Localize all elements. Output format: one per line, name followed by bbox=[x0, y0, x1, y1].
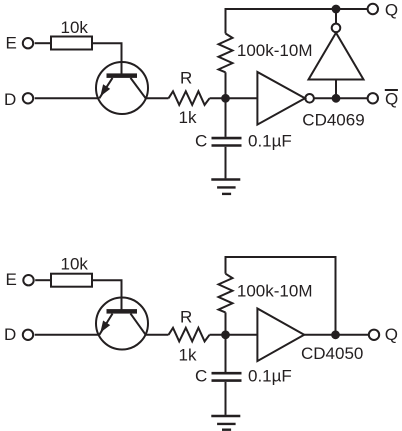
wire D to emitter (bottom) bbox=[35, 334, 99, 336]
wire node A down to capacitor (top) bbox=[225, 98, 227, 137]
svg-text:100k-10M: 100k-10M bbox=[237, 41, 313, 60]
wire node B up to feedback resistor (bottom) bbox=[225, 312, 227, 334]
wire 10k to base (top) bbox=[92, 43, 122, 74]
wire R to inverter input (top) bbox=[210, 97, 258, 99]
svg-text:E: E bbox=[6, 33, 17, 52]
resistor R 1k (bottom) bbox=[169, 308, 210, 365]
wire U1 output to Q-bar terminal bbox=[314, 97, 367, 99]
node rail junction (top) bbox=[332, 5, 341, 14]
transistor Q1 bbox=[96, 62, 148, 114]
buffer U3 CD4050 (right-pointing, no bubble) bbox=[257, 309, 363, 364]
wire E to 10k resistor (bottom) bbox=[35, 279, 50, 281]
svg-text:10k: 10k bbox=[61, 18, 89, 37]
wire feedback resistor to top rail (top) bbox=[225, 8, 227, 34]
wire capacitor to ground (top) bbox=[225, 147, 227, 179]
svg-text:Q: Q bbox=[385, 325, 398, 344]
terminal Q (top) bbox=[368, 1, 399, 20]
svg-text:0.1µF: 0.1µF bbox=[248, 131, 292, 150]
wire node A up to feedback resistor (top) bbox=[225, 72, 227, 98]
svg-text:C: C bbox=[195, 131, 207, 150]
wire feedback rail (bottom) bbox=[225, 257, 336, 335]
resistor 100k-10M (bottom) bbox=[219, 274, 313, 313]
transistor Q2 bbox=[96, 298, 148, 350]
ground (bottom) bbox=[211, 416, 240, 430]
node output junction (bottom) bbox=[331, 330, 340, 339]
svg-text:100k-10M: 100k-10M bbox=[237, 281, 313, 300]
node B junction (bottom RC node) bbox=[221, 330, 230, 339]
resistor 100k-10M (top) bbox=[219, 34, 313, 73]
ground (top) bbox=[211, 180, 240, 194]
svg-text:R: R bbox=[180, 308, 192, 327]
resistor 10k (bottom) bbox=[51, 255, 92, 287]
node output junction (top) bbox=[332, 94, 341, 103]
svg-text:CD4069: CD4069 bbox=[302, 110, 364, 129]
wire capacitor to ground (bottom) bbox=[225, 382, 227, 415]
svg-text:Q: Q bbox=[385, 90, 398, 109]
terminal E (bottom) bbox=[6, 270, 34, 289]
terminal E (top) bbox=[6, 33, 34, 52]
terminal Q-bar (top) bbox=[368, 90, 399, 109]
inverter U2 CD4069 (upward, output bubble at top) bbox=[309, 24, 364, 80]
svg-text:0.1µF: 0.1µF bbox=[248, 367, 292, 386]
capacitor C 0.1uF (top) bbox=[195, 131, 292, 150]
wire buffer output to Q terminal (bottom) bbox=[304, 334, 368, 336]
svg-text:CD4050: CD4050 bbox=[301, 344, 363, 363]
svg-text:R: R bbox=[180, 69, 192, 88]
wire E to 10k resistor (top) bbox=[35, 42, 51, 44]
wire rail junction down to inverter U2 output bubble bbox=[335, 9, 337, 24]
wire 10k to base (bottom) bbox=[92, 280, 122, 310]
terminal Q (bottom) bbox=[369, 325, 398, 344]
svg-text:C: C bbox=[195, 367, 207, 386]
svg-text:D: D bbox=[4, 325, 16, 344]
svg-text:1k: 1k bbox=[179, 346, 197, 365]
resistor R 1k (top) bbox=[169, 69, 210, 128]
wire collector to R (bottom) bbox=[145, 334, 168, 336]
svg-text:1k: 1k bbox=[179, 108, 197, 127]
wire D to emitter (top) bbox=[35, 97, 99, 99]
inverter U1 CD4069 (right-pointing) bbox=[257, 72, 364, 129]
wire inverter U2 input down to output node bbox=[335, 80, 337, 99]
terminal D (bottom) bbox=[4, 325, 33, 344]
wire feedback resistor to feedback rail (bottom) bbox=[225, 256, 227, 274]
wire node B down to capacitor (bottom) bbox=[225, 335, 227, 372]
svg-text:D: D bbox=[4, 90, 16, 109]
wire top rail (top) bbox=[225, 8, 368, 10]
wire collector to R (top) bbox=[145, 97, 168, 99]
wire R to buffer input (bottom) bbox=[210, 334, 258, 336]
terminal D (top) bbox=[4, 90, 33, 109]
node A junction (top RC node) bbox=[221, 94, 230, 103]
svg-text:Q: Q bbox=[385, 1, 398, 20]
svg-text:10k: 10k bbox=[61, 255, 89, 274]
svg-text:E: E bbox=[6, 270, 17, 289]
resistor 10k (top) bbox=[51, 18, 92, 50]
capacitor C 0.1uF (bottom) bbox=[195, 367, 292, 386]
